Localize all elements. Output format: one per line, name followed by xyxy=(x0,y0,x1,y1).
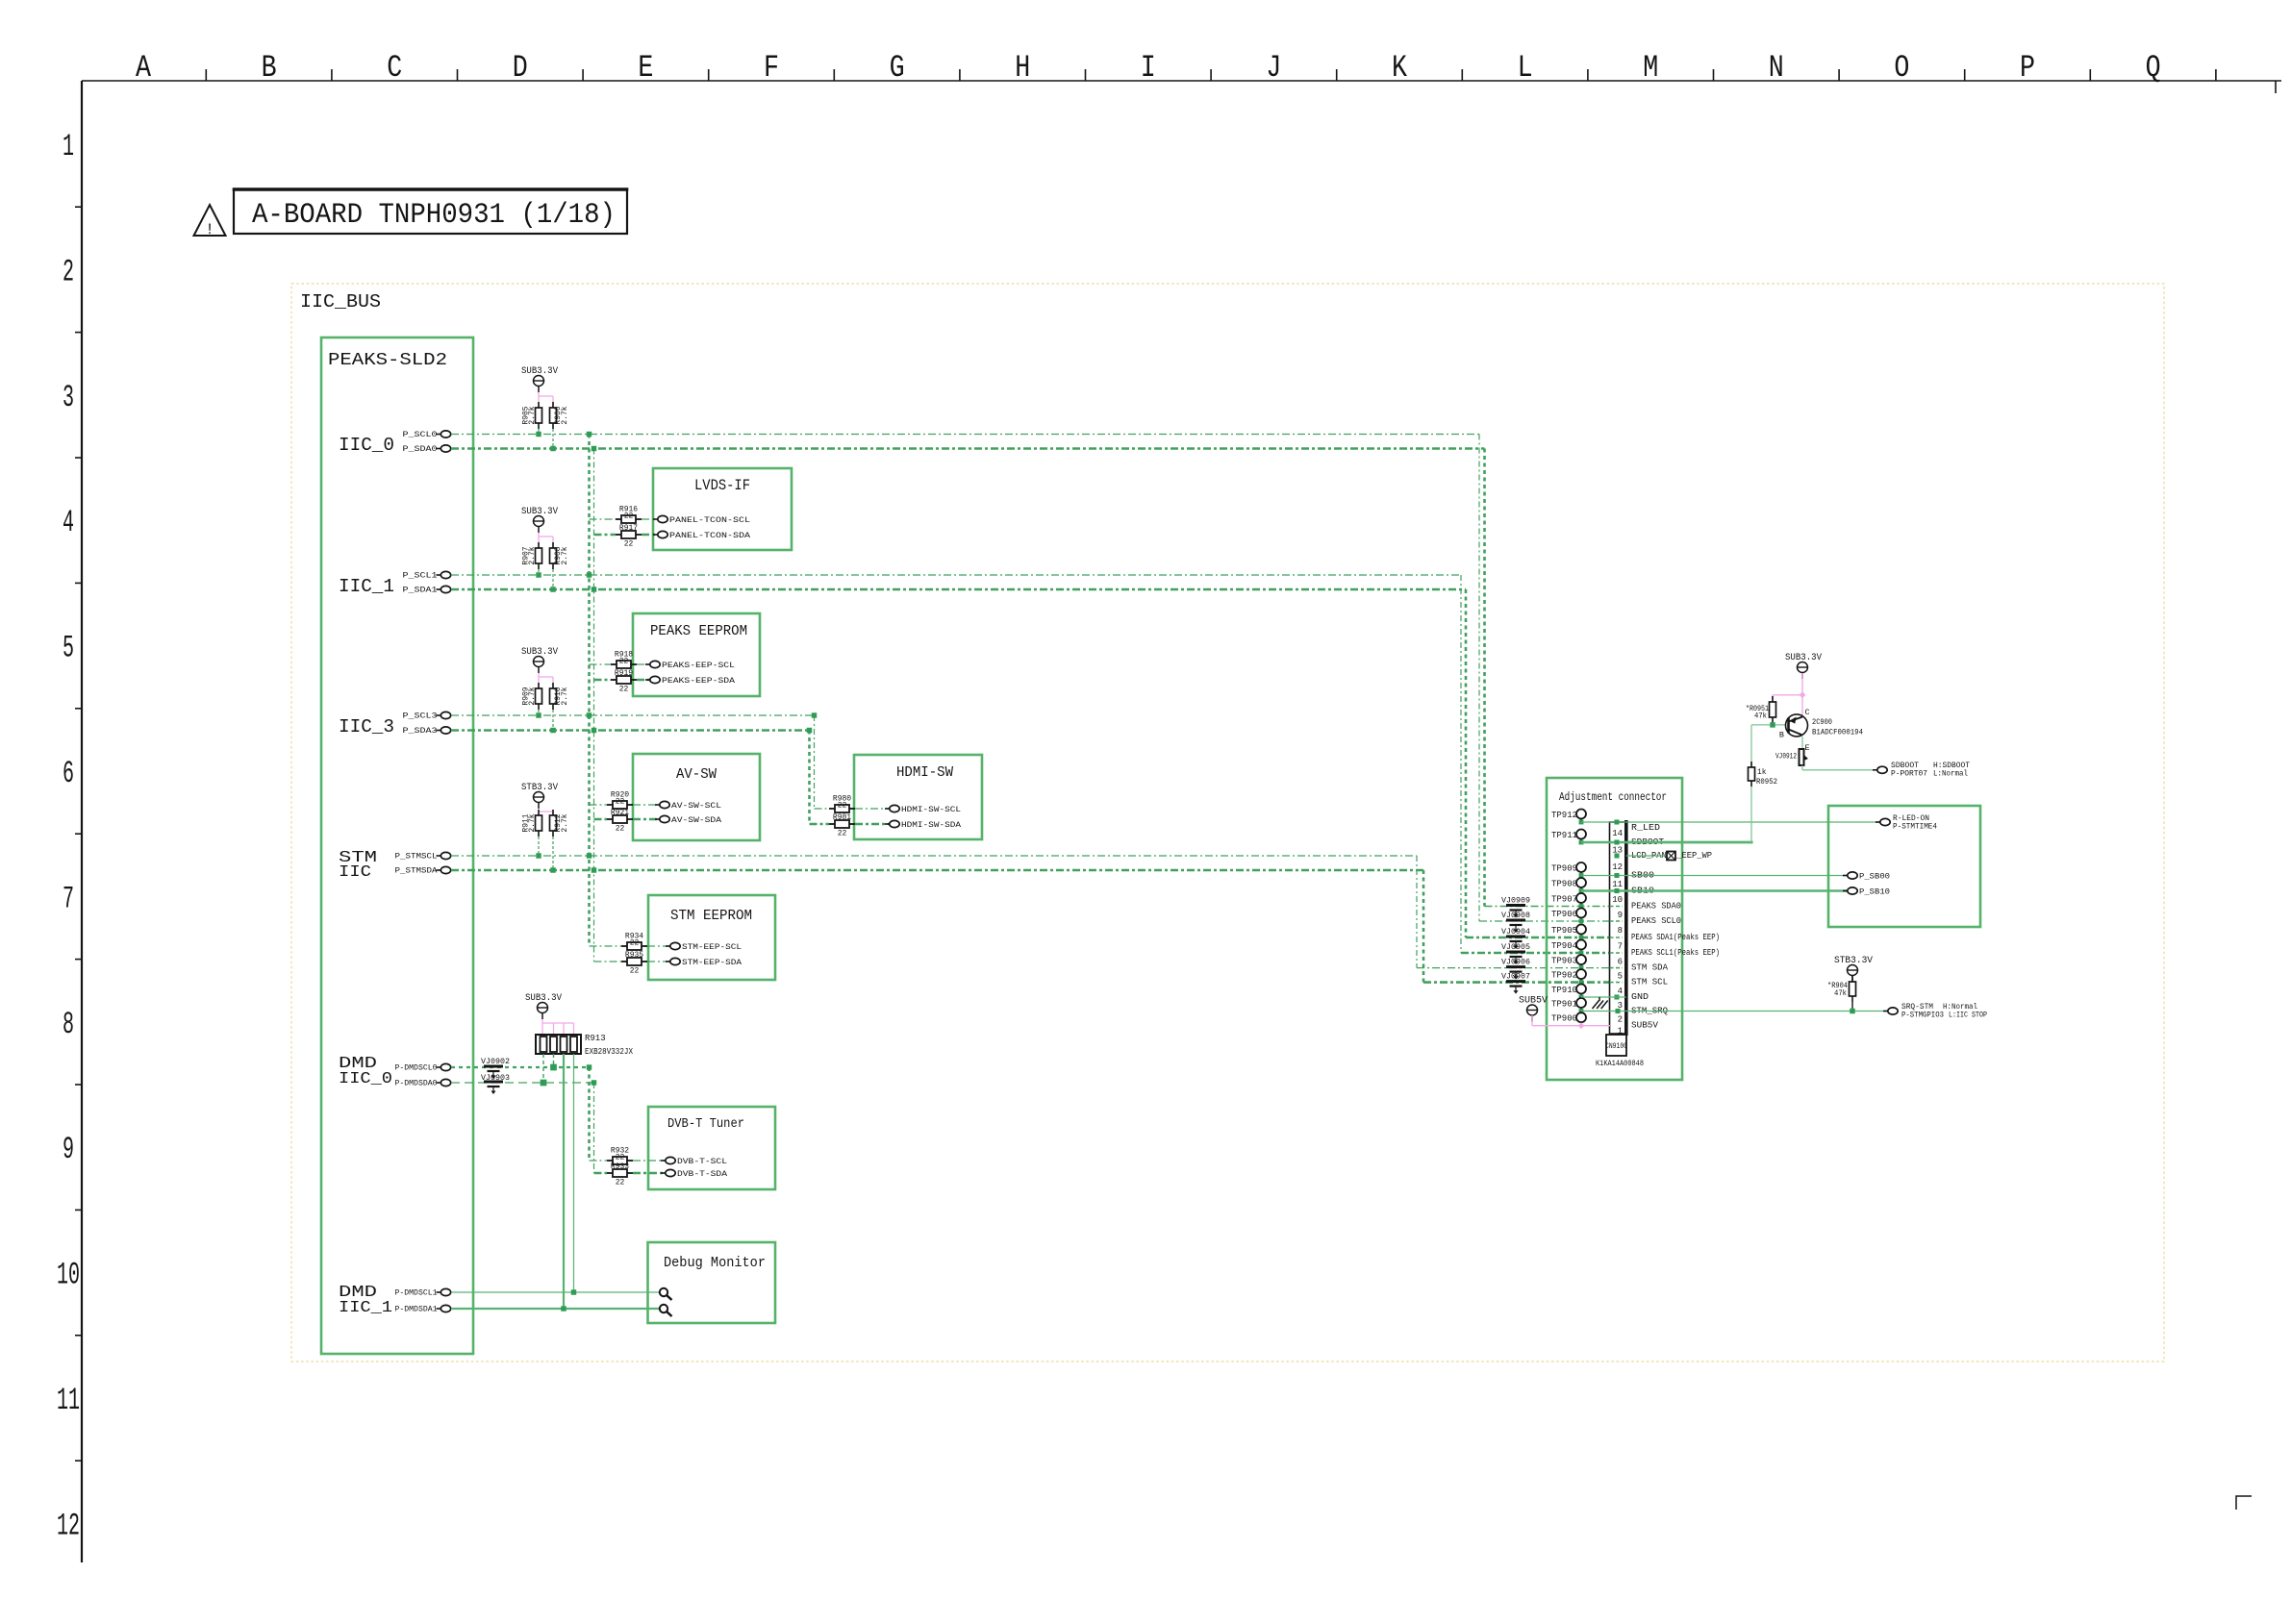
block Adjustment connector xyxy=(1547,778,1682,1080)
port P_STMSCL xyxy=(437,855,441,857)
svg-text:R913: R913 xyxy=(585,1034,606,1043)
svg-text:5: 5 xyxy=(1618,972,1623,982)
svg-text:LVDS-IF: LVDS-IF xyxy=(694,477,750,494)
wire pink collector feed xyxy=(1801,673,1803,717)
wire STM SDA row xyxy=(451,869,1423,872)
svg-text:DVB-T-SCL: DVB-T-SCL xyxy=(677,1157,727,1166)
connector CN9100 body xyxy=(1610,822,1626,1034)
svg-text:K1KA14A00848: K1KA14A00848 xyxy=(1596,1059,1644,1068)
svg-text:22: 22 xyxy=(616,798,625,807)
svg-text:A-BOARD TNPH0931 (1/18): A-BOARD TNPH0931 (1/18) xyxy=(252,199,616,232)
wire STM SCL vertical to connector xyxy=(1416,856,1418,968)
svg-text:3: 3 xyxy=(63,380,74,415)
svg-text:22: 22 xyxy=(619,686,629,694)
junction xyxy=(592,867,596,872)
svg-text:PANEL-TCON-SDA: PANEL-TCON-SDA xyxy=(669,531,751,540)
junction xyxy=(541,1080,547,1087)
port STM-EEP-SDA xyxy=(666,961,670,962)
wire STM-EEP SDA branch xyxy=(594,961,622,962)
wire SDA ladder vertical (DMD tier) xyxy=(593,1083,595,1173)
wire IIC-0 SDA vertical to connector xyxy=(1483,449,1486,907)
svg-text:C: C xyxy=(387,50,402,86)
junction xyxy=(812,712,817,717)
svg-text:CN9100: CN9100 xyxy=(1605,1042,1627,1051)
junction xyxy=(536,572,541,577)
port STM-EEP-SCL xyxy=(666,945,670,947)
svg-text:K: K xyxy=(1392,50,1408,86)
junction xyxy=(592,587,596,591)
port HDMI-SW-SCL xyxy=(885,808,890,810)
svg-text:IIC_0: IIC_0 xyxy=(339,1070,392,1088)
svg-text:DVB-T-SDA: DVB-T-SDA xyxy=(677,1169,728,1179)
wire HDMI SCL vertical xyxy=(814,715,816,809)
svg-text:22: 22 xyxy=(624,540,634,549)
svg-text:2.7k: 2.7k xyxy=(528,406,537,424)
port AV-SW-SCL xyxy=(655,804,660,806)
svg-text:M: M xyxy=(1643,50,1658,86)
svg-text:HDMI-SW-SDA: HDMI-SW-SDA xyxy=(901,820,962,830)
svg-text:22: 22 xyxy=(630,939,640,948)
wire IIC-0 SDA row xyxy=(451,447,1485,450)
port P_SDA3 xyxy=(437,730,441,732)
svg-text:STM-EEP-SCL: STM-EEP-SCL xyxy=(682,942,742,952)
wire LVDS SDA branch xyxy=(594,534,617,537)
svg-text:P_STMSCL: P_STMSCL xyxy=(395,853,438,862)
wire array pin2 to DMD SCL0 xyxy=(553,1054,555,1067)
svg-text:STM SDA: STM SDA xyxy=(1631,963,1669,973)
junction xyxy=(587,712,592,717)
corner registration mark xyxy=(2236,1496,2252,1510)
junction xyxy=(587,572,592,577)
svg-text:TP911: TP911 xyxy=(1551,831,1577,840)
resistor R919 22 xyxy=(611,679,617,681)
port PEAKS-EEP-SDA xyxy=(645,679,650,681)
junction xyxy=(550,867,555,872)
svg-text:G: G xyxy=(890,50,905,86)
wire DVB-T SCL branch xyxy=(590,1160,608,1162)
svg-text:HDMI-SW-SCL: HDMI-SW-SCL xyxy=(901,805,961,814)
svg-text:P_SCL3: P_SCL3 xyxy=(403,712,438,721)
port P-DMDSDA0 xyxy=(437,1082,441,1084)
wire SDBOOT xyxy=(1581,841,1753,843)
junction xyxy=(1770,722,1775,727)
wire HDMI SDA vertical xyxy=(808,731,811,825)
junction xyxy=(561,1306,566,1311)
wire array pin1 to DMD SDA0 xyxy=(542,1054,544,1083)
svg-text:TP907: TP907 xyxy=(1551,895,1577,905)
resistor R0952 1k xyxy=(1750,762,1752,767)
port P_SDA0 xyxy=(437,448,441,450)
wire STM SCL row xyxy=(451,855,1417,857)
svg-text:TP903: TP903 xyxy=(1551,957,1577,966)
wire pink pullup feed xyxy=(538,673,540,688)
svg-text:TP910: TP910 xyxy=(1551,986,1577,995)
wire LCD_PANEL_EEP_WP stub xyxy=(1626,855,1666,857)
svg-text:4: 4 xyxy=(63,505,74,540)
port P-DMDSCL1 xyxy=(437,1291,441,1293)
svg-text:P_SB10: P_SB10 xyxy=(1859,887,1890,897)
svg-text:7: 7 xyxy=(1618,942,1623,952)
svg-text:8: 8 xyxy=(1618,926,1623,936)
svg-text:PANEL-TCON-SCL: PANEL-TCON-SCL xyxy=(669,515,750,525)
port DVB-T-SDA xyxy=(661,1172,666,1174)
svg-text:PEAKS SCL1(Peaks EEP): PEAKS SCL1(Peaks EEP) xyxy=(1631,948,1720,958)
svg-text:R917: R917 xyxy=(619,524,638,533)
block output box xyxy=(1828,806,1980,927)
wire array pin4 to Debug SCL xyxy=(573,1054,575,1292)
svg-text:12: 12 xyxy=(57,1508,80,1543)
svg-text:2.7k: 2.7k xyxy=(528,687,537,705)
svg-text:P_SB00: P_SB00 xyxy=(1859,872,1890,882)
port P_SB10 xyxy=(1843,890,1848,892)
resistor R906 2.7k xyxy=(552,402,554,408)
svg-text:47k: 47k xyxy=(1834,989,1847,998)
wire STM-EEP SCL branch xyxy=(590,945,622,947)
wire IIC-1 SDA row xyxy=(451,588,1466,591)
wire base net xyxy=(1751,724,1786,726)
svg-text:P-STMGPIO3: P-STMGPIO3 xyxy=(1901,1012,1944,1020)
svg-text:1: 1 xyxy=(63,129,74,164)
resistor R0951 47k xyxy=(1772,696,1774,702)
svg-text:7: 7 xyxy=(63,881,74,916)
svg-text:1: 1 xyxy=(1618,1026,1623,1036)
svg-text:10: 10 xyxy=(1612,895,1623,905)
svg-text:22: 22 xyxy=(616,1179,625,1187)
svg-text:B: B xyxy=(262,50,277,86)
wire SDBOOT to base divider xyxy=(1750,787,1752,842)
junction xyxy=(592,446,596,451)
resistor R916 22 xyxy=(616,518,621,520)
svg-text:TP906: TP906 xyxy=(1551,910,1577,919)
svg-text:Debug Monitor: Debug Monitor xyxy=(664,1255,766,1271)
svg-text:9: 9 xyxy=(63,1132,74,1167)
transistor 2C900 B1ADCF000194 xyxy=(1786,714,1808,737)
svg-text:AV-SW: AV-SW xyxy=(676,766,717,783)
wire SCL ladder vertical (upper) xyxy=(588,435,591,947)
svg-text:P-DMDSDA0: P-DMDSDA0 xyxy=(395,1080,438,1088)
chassis ground symbol xyxy=(1599,997,1600,1001)
svg-text:2: 2 xyxy=(1618,1015,1623,1025)
port SRQ-STM output xyxy=(1883,1011,1888,1012)
svg-text:PEAKS-SLD2: PEAKS-SLD2 xyxy=(328,351,447,370)
junction xyxy=(807,728,812,733)
svg-text:TP912: TP912 xyxy=(1551,811,1577,820)
svg-text:PEAKS-EEP-SDA: PEAKS-EEP-SDA xyxy=(662,676,736,686)
wire LVDS SCL branch xyxy=(590,518,617,520)
svg-text:IIC_1: IIC_1 xyxy=(339,1299,392,1317)
wire pin stub xyxy=(1610,952,1624,954)
junction xyxy=(592,728,596,733)
svg-text:R981: R981 xyxy=(833,813,851,822)
svg-text:VJ0912: VJ0912 xyxy=(1775,753,1797,762)
wire STM_SRQ xyxy=(1581,1011,1888,1012)
svg-text:PEAKS SCL0: PEAKS SCL0 xyxy=(1631,916,1681,926)
svg-text:I: I xyxy=(1141,50,1156,86)
svg-text:D: D xyxy=(513,50,528,86)
resistor R921 22 xyxy=(607,818,613,820)
resistor R912 2.7k xyxy=(552,810,554,815)
svg-text:P-DMDSCL0: P-DMDSCL0 xyxy=(395,1064,438,1073)
block HDMI-SW xyxy=(854,755,982,839)
junction xyxy=(587,1064,592,1069)
wire DMD IIC-1 SDA (to Debug Monitor) xyxy=(451,1308,664,1310)
wire emitter to SDBOOT port xyxy=(1801,765,1803,770)
probe port Debug SDA xyxy=(660,1305,667,1312)
svg-text:!: ! xyxy=(205,221,214,238)
svg-text:TP901: TP901 xyxy=(1551,1000,1577,1010)
wire pink pullup feed xyxy=(538,392,540,408)
svg-text:A: A xyxy=(136,50,152,86)
svg-text:P_STMSDA: P_STMSDA xyxy=(395,867,438,876)
resistor R909 2.7k xyxy=(538,683,540,688)
svg-text:IIC_0: IIC_0 xyxy=(339,435,394,456)
svg-text:J: J xyxy=(1266,50,1281,86)
wire DVB-T SDA branch xyxy=(594,1172,608,1175)
svg-text:PEAKS EEPROM: PEAKS EEPROM xyxy=(650,623,747,639)
wire SB00 xyxy=(1581,875,1848,877)
block PEAKS EEPROM xyxy=(633,613,760,696)
port P_SCL1 xyxy=(437,574,441,576)
resistor R911 2.7k xyxy=(538,810,540,815)
svg-text:EXB28V332JX: EXB28V332JX xyxy=(585,1047,633,1057)
block DVB-T Tuner xyxy=(648,1107,775,1189)
port P-DMDSCL0 xyxy=(437,1066,441,1068)
svg-text:P-PORT07: P-PORT07 xyxy=(1891,770,1927,779)
wire SCL ladder vertical (DMD tier) xyxy=(588,1067,591,1161)
svg-text:GND: GND xyxy=(1631,992,1649,1002)
port R-LED-ON xyxy=(1876,821,1880,823)
svg-text:R933: R933 xyxy=(611,1162,629,1171)
IC block PEAKS-SLD2 xyxy=(321,337,473,1354)
svg-text:E: E xyxy=(1805,743,1810,753)
block STM EEPROM xyxy=(648,895,775,980)
resistor R917 22 xyxy=(616,534,621,536)
svg-text:HDMI-SW: HDMI-SW xyxy=(896,764,953,781)
svg-text:R935: R935 xyxy=(625,951,643,960)
port P_SDA1 xyxy=(437,588,441,590)
svg-text:R921: R921 xyxy=(611,809,629,817)
resistor R933 22 xyxy=(607,1172,613,1174)
wire array pin3 to Debug SDA xyxy=(563,1054,565,1309)
wire GND xyxy=(1581,996,1610,998)
wire pink pullup feed xyxy=(538,809,540,815)
wire pin stub xyxy=(1610,937,1624,938)
svg-text:P_SDA3: P_SDA3 xyxy=(403,727,438,736)
page frame rulers xyxy=(82,80,2281,82)
svg-text:STM-EEP-SDA: STM-EEP-SDA xyxy=(682,958,743,967)
wire DMD IIC-1 SCL (to Debug Monitor) xyxy=(451,1291,664,1293)
port P_SCL3 xyxy=(437,714,441,716)
svg-text:10: 10 xyxy=(57,1258,80,1293)
svg-text:8: 8 xyxy=(63,1007,74,1042)
svg-text:R919: R919 xyxy=(615,669,633,678)
svg-text:TP902: TP902 xyxy=(1551,971,1577,981)
svg-text:E: E xyxy=(638,50,653,86)
svg-text:STM EEPROM: STM EEPROM xyxy=(670,908,752,924)
resistor R907 2.7k xyxy=(538,542,540,548)
wire pin stub xyxy=(1610,920,1624,922)
IIC_BUS bus boundary box xyxy=(291,284,2164,1362)
svg-text:TP905: TP905 xyxy=(1551,926,1577,936)
svg-text:22: 22 xyxy=(630,967,640,976)
resistor R935 22 xyxy=(621,961,627,962)
resistor array R913 EXB28V332JX xyxy=(536,1035,581,1054)
svg-text:O: O xyxy=(1894,50,1909,86)
title box A-BOARD TNPH0931 (1/18) xyxy=(234,189,627,234)
svg-text:TP900: TP900 xyxy=(1551,1014,1577,1024)
junction xyxy=(536,853,541,858)
probe port Debug SCL xyxy=(660,1288,667,1296)
svg-text:L:Normal: L:Normal xyxy=(1933,770,1968,779)
svg-text:P-DMDSDA1: P-DMDSDA1 xyxy=(395,1306,438,1314)
wire IIC-1 SCL vertical to connector xyxy=(1460,575,1462,953)
wire DMD IIC-0 SDA row xyxy=(451,1082,594,1084)
svg-text:11: 11 xyxy=(1612,880,1623,889)
wire PEAKS-EEP SCL branch xyxy=(590,663,612,665)
resistor R918 22 xyxy=(611,663,617,665)
svg-text:PEAKS SDA0: PEAKS SDA0 xyxy=(1631,902,1681,912)
wire pink pullup feed xyxy=(538,533,540,548)
svg-text:22: 22 xyxy=(616,825,625,834)
wire SB10 xyxy=(1581,889,1848,891)
svg-text:11: 11 xyxy=(57,1383,80,1418)
junction xyxy=(592,1080,596,1085)
wire SUB5V pink xyxy=(1531,1015,1533,1026)
svg-text:TP904: TP904 xyxy=(1551,941,1577,951)
wire IIC-1 SDA vertical to connector xyxy=(1465,589,1468,937)
svg-text:4: 4 xyxy=(1618,987,1623,996)
svg-text:H: H xyxy=(1015,50,1030,86)
svg-text:C: C xyxy=(1805,708,1810,717)
block AV-SW xyxy=(633,754,760,840)
junction xyxy=(587,853,592,858)
svg-text:2.7k: 2.7k xyxy=(561,546,569,564)
svg-text:P_SDA0: P_SDA0 xyxy=(403,445,438,454)
port AV-SW-SDA xyxy=(655,818,660,820)
junction xyxy=(550,446,555,451)
svg-text:22: 22 xyxy=(619,658,629,666)
port DVB-T-SCL xyxy=(661,1160,666,1162)
svg-text:1k: 1k xyxy=(1757,768,1767,777)
svg-text:Q: Q xyxy=(2146,50,2161,86)
port PANEL-TCON-SCL xyxy=(653,518,658,520)
svg-text:PEAKS-EEP-SCL: PEAKS-EEP-SCL xyxy=(662,661,735,670)
svg-text:P_SCL1: P_SCL1 xyxy=(403,572,438,581)
svg-text:R0952: R0952 xyxy=(1756,778,1777,787)
svg-text:STM SCL: STM SCL xyxy=(1631,978,1668,987)
svg-text:9: 9 xyxy=(1618,911,1623,920)
svg-text:22: 22 xyxy=(624,512,634,521)
wire IIC-0 SCL row xyxy=(451,434,1479,436)
svg-text:P_SCL0: P_SCL0 xyxy=(403,431,438,439)
wire PEAKS-EEP SDA branch xyxy=(594,679,612,682)
block LVDS-IF xyxy=(653,468,792,550)
svg-text:B: B xyxy=(1779,731,1784,740)
WP terminator symbol xyxy=(1667,852,1675,861)
svg-text:12: 12 xyxy=(1612,862,1623,872)
wire IIC-3 SDA row xyxy=(451,729,810,732)
svg-text:P-STMTIME4: P-STMTIME4 xyxy=(1893,823,1937,832)
svg-text:2.7k: 2.7k xyxy=(561,687,569,705)
resistor R934 22 xyxy=(621,945,627,947)
svg-text:2: 2 xyxy=(63,254,74,289)
svg-text:IIC_3: IIC_3 xyxy=(339,716,394,737)
svg-text:SUB5V: SUB5V xyxy=(1631,1021,1659,1031)
resistor R905 2.7k xyxy=(538,402,540,408)
resistor R980 22 xyxy=(829,808,835,810)
svg-text:P: P xyxy=(2020,50,2035,86)
svg-text:AV-SW-SCL: AV-SW-SCL xyxy=(671,801,721,811)
port SDBOOT output xyxy=(1873,769,1877,771)
junction xyxy=(550,1064,557,1071)
wire IIC-1 SCL row xyxy=(451,574,1461,576)
svg-text:5: 5 xyxy=(63,631,74,666)
junction xyxy=(550,587,555,591)
port P_SCL0 xyxy=(437,434,441,436)
svg-text:2.7k: 2.7k xyxy=(528,813,537,832)
svg-text:22: 22 xyxy=(838,802,847,811)
junction xyxy=(536,712,541,717)
wire IIC-3 SCL row xyxy=(451,714,815,716)
wire IIC-0 SCL vertical to connector xyxy=(1478,435,1480,922)
svg-text:PEAKS SDA1(Peaks EEP): PEAKS SDA1(Peaks EEP) xyxy=(1631,933,1720,942)
port PANEL-TCON-SDA xyxy=(653,534,658,536)
svg-text:Adjustment connector: Adjustment connector xyxy=(1559,790,1667,804)
port PEAKS-EEP-SCL xyxy=(645,663,650,665)
port HDMI-SW-SDA xyxy=(885,823,890,825)
svg-text:P_SDA1: P_SDA1 xyxy=(403,587,438,595)
svg-text:B1ADCF000194: B1ADCF000194 xyxy=(1812,728,1863,737)
svg-text:N: N xyxy=(1769,50,1784,86)
resistor R908 2.7k xyxy=(552,542,554,548)
resistor R981 22 xyxy=(829,823,835,825)
wire R_LED xyxy=(1581,821,1880,823)
junction xyxy=(571,1289,576,1294)
wire STM SDA vertical to connector xyxy=(1422,870,1425,983)
junction xyxy=(1850,1009,1854,1013)
block Debug Monitor xyxy=(648,1242,776,1323)
svg-text:DVB-T Tuner: DVB-T Tuner xyxy=(667,1116,744,1132)
port P_STMSDA xyxy=(437,869,441,871)
svg-text:6: 6 xyxy=(1618,957,1623,966)
wire AV-SW SDA branch xyxy=(594,818,608,821)
svg-text:14: 14 xyxy=(1612,829,1623,838)
wire DMD IIC-0 SCL row xyxy=(451,1066,590,1068)
junction xyxy=(536,432,541,437)
svg-text:L: L xyxy=(1518,50,1533,86)
svg-text:IIC: IIC xyxy=(339,863,371,882)
resistor R932 22 xyxy=(607,1160,613,1162)
svg-text:22: 22 xyxy=(616,1154,625,1162)
svg-text:2.7k: 2.7k xyxy=(561,406,569,424)
warning triangle symbol xyxy=(194,205,226,236)
svg-text:6: 6 xyxy=(63,756,74,791)
svg-text:AV-SW-SDA: AV-SW-SDA xyxy=(671,815,722,825)
junction xyxy=(550,728,555,733)
svg-text:IIC_BUS: IIC_BUS xyxy=(300,291,381,312)
resistor R904 47k xyxy=(1851,976,1853,982)
junction xyxy=(587,432,592,437)
resistor R910 2.7k xyxy=(552,683,554,688)
wire pink array feed xyxy=(541,1019,543,1037)
port P_SB00 xyxy=(1843,875,1848,877)
svg-text:47k: 47k xyxy=(1754,712,1767,721)
svg-text:22: 22 xyxy=(838,830,847,838)
wire SDA ladder vertical (upper) xyxy=(593,449,595,962)
svg-text:R_LED: R_LED xyxy=(1631,823,1660,833)
wire pin stub xyxy=(1610,906,1624,908)
svg-text:L:IIC STOP: L:IIC STOP xyxy=(1949,1012,1987,1020)
